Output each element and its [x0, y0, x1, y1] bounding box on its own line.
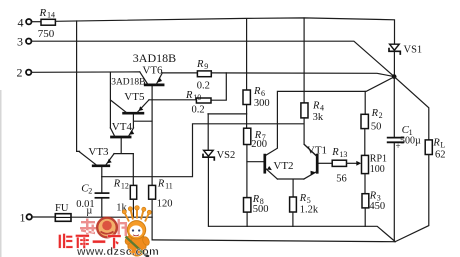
terminal 4 [18, 15, 32, 29]
wire VT3 emitter junction to VT4 base [114, 153, 133, 155]
svg-text:R: R [157, 178, 165, 189]
resistor R8 [244, 194, 269, 215]
wire aux top rail R14 to VS1 corner [55, 18, 394, 44]
svg-text:R: R [432, 137, 440, 148]
transistor VT1 [304, 144, 327, 179]
wire R6 to VS2 [208, 113, 247, 115]
wire C2 column [101, 167, 103, 217]
resistor R12 [113, 178, 137, 213]
resistor R2 [361, 108, 383, 133]
svg-text:µ: µ [86, 206, 92, 217]
resistor R10 [185, 90, 211, 116]
svg-text:3k: 3k [313, 112, 324, 123]
wire VT2 base [247, 161, 264, 163]
svg-text:VT1: VT1 [307, 144, 327, 156]
resistor R4 [301, 100, 324, 123]
scan edge artifacts [0, 90, 2, 257]
svg-text:3: 3 [17, 35, 23, 49]
wire collector bus drop [109, 72, 111, 128]
wire terminal3 rail to output node [32, 41, 395, 76]
svg-text:300: 300 [254, 98, 270, 109]
svg-text:10: 10 [193, 93, 201, 102]
transistor VT3 [79, 146, 114, 166]
resistor R6 [243, 86, 270, 109]
wire R2 tap [364, 91, 366, 114]
svg-text:450: 450 [369, 201, 385, 212]
svg-text:9: 9 [204, 62, 208, 71]
wire C1 to common point [393, 143, 395, 241]
watermark mascot [122, 206, 151, 257]
resistor R3 [362, 191, 385, 213]
wire node to C1 [393, 79, 395, 137]
svg-text:www.dzsc.com: www.dzsc.com [76, 246, 159, 257]
wire common rail lower [152, 240, 395, 242]
resistor R7 [244, 128, 267, 150]
wire darlington base column VT6 to R11 [151, 86, 153, 186]
svg-text:120: 120 [157, 199, 173, 210]
wire RL to common point [395, 155, 429, 242]
svg-text:0.2: 0.2 [192, 105, 205, 116]
svg-text:VT6: VT6 [142, 64, 163, 76]
resistor R5 [290, 193, 319, 215]
terminal 2 [17, 66, 32, 80]
wire VT5 base tie to darlington column [133, 114, 152, 128]
resistor R13 [331, 147, 347, 184]
svg-text:R: R [369, 191, 377, 202]
svg-text:1: 1 [20, 211, 26, 225]
svg-text:62: 62 [435, 149, 446, 160]
svg-text:1.2k: 1.2k [300, 204, 319, 215]
svg-text:13: 13 [339, 150, 347, 159]
svg-text:3AD18B: 3AD18B [133, 51, 176, 65]
wire R3 to common rail [364, 208, 366, 226]
wire VT5 emitter to R10 [149, 99, 196, 101]
svg-text:VS1: VS1 [404, 44, 423, 55]
transistor VT5 [111, 77, 149, 113]
svg-text:2: 2 [17, 66, 23, 80]
wire VT2 collector riser to node [266, 77, 395, 155]
terminal 3 [17, 35, 31, 49]
zener diode VS2 [203, 150, 235, 161]
resistor R14 [38, 7, 56, 40]
terminal 1 [20, 211, 32, 225]
svg-text:11: 11 [165, 181, 173, 190]
watermark text wei-ku-yi-xia [59, 234, 122, 249]
svg-text:L: L [440, 140, 445, 149]
svg-text:0.2: 0.2 [197, 81, 210, 92]
wire node to RL [395, 77, 429, 140]
capacitor C1 [388, 124, 421, 151]
svg-text:50: 50 [371, 121, 382, 132]
wire output rail R9 to node [211, 73, 394, 77]
wire terminal2 input rail [32, 71, 140, 73]
potentiometer RP1 [362, 154, 388, 175]
svg-text:56: 56 [336, 173, 347, 184]
wire common rail upper [209, 226, 395, 241]
wire VT1 base to R13 [318, 162, 332, 164]
transistor VT2 [265, 155, 294, 179]
svg-text:R: R [312, 100, 320, 111]
svg-text:200: 200 [251, 139, 267, 150]
resistor RL [425, 137, 445, 160]
svg-text:R: R [253, 86, 261, 97]
wire RP1 to R3 [364, 174, 366, 194]
svg-text:R: R [39, 7, 47, 19]
wire FU to R11 column [71, 216, 152, 218]
wire R2 to RP1 [364, 129, 366, 156]
svg-text:R: R [331, 147, 339, 158]
zener diode VS1 [389, 44, 422, 74]
wire aux drop to VT3 collector [77, 21, 80, 151]
wire VS2 column upper [207, 114, 209, 150]
svg-text:2: 2 [379, 111, 383, 120]
svg-text:VT5: VT5 [124, 91, 145, 103]
wire VS2 to common rail corner [207, 158, 209, 226]
watermark stamp emblem [97, 218, 117, 238]
svg-text:14: 14 [47, 11, 55, 20]
svg-text:VS2: VS2 [217, 150, 236, 161]
svg-text:500: 500 [253, 204, 269, 215]
wire error signal bus to VT3 base net [102, 124, 304, 177]
wire R11 to lower rail [151, 199, 153, 240]
wire R4 to VT1 collector [304, 118, 317, 156]
svg-text:6: 6 [261, 89, 265, 98]
transistor VT6 [133, 51, 176, 85]
wire terminal1 to FU [32, 216, 55, 218]
fuse FU [55, 203, 71, 222]
svg-text:FU: FU [55, 203, 69, 214]
wire reference column R6 R7 R8 [246, 19, 249, 227]
wire R5 to common rail [292, 212, 294, 226]
svg-text:750: 750 [38, 28, 55, 40]
wire aux rail to R4 [303, 18, 305, 103]
svg-text:4: 4 [18, 15, 24, 29]
svg-text:R: R [371, 108, 379, 119]
svg-text:3AD18B: 3AD18B [111, 77, 145, 87]
wire terminal4 to R14 [32, 21, 41, 23]
svg-text:VT4: VT4 [112, 121, 133, 133]
svg-text:R: R [196, 59, 204, 70]
resistor R9 [196, 59, 211, 92]
node output junction [392, 74, 397, 79]
wire R10 stub to output rail [211, 73, 226, 100]
svg-text:R: R [299, 193, 307, 204]
capacitor C2 [76, 183, 108, 217]
wire emitter junction to R5 [277, 179, 304, 197]
svg-text:100: 100 [370, 164, 385, 175]
svg-text:12: 12 [121, 181, 129, 190]
wire R13 to RP1 wiper arrow [347, 161, 362, 166]
svg-text:2: 2 [88, 187, 92, 196]
wire VT3 emitter to R12 column [132, 154, 134, 186]
resistor R11 [149, 178, 173, 209]
svg-text:R: R [113, 178, 121, 189]
wire VT6 emitter to R9 [162, 72, 197, 74]
watermark text wo-zhong-pian [80, 219, 127, 237]
svg-text:VT2: VT2 [273, 160, 293, 172]
wire R12 to terminal1 rail [132, 199, 134, 217]
transistor VT4 [110, 121, 134, 154]
svg-text:VT3: VT3 [88, 146, 109, 158]
svg-text:500µ: 500µ [400, 136, 421, 147]
